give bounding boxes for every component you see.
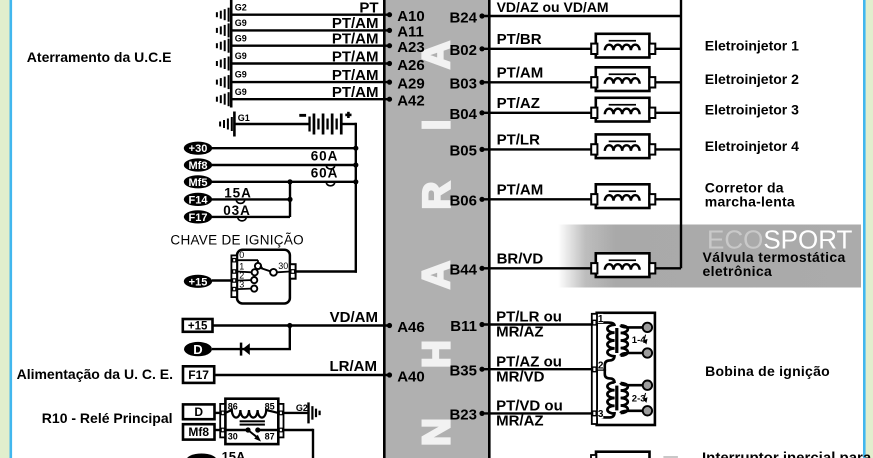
svg-text:G2: G2 <box>296 403 308 413</box>
svg-text:B03: B03 <box>449 76 477 93</box>
svg-text:60A: 60A <box>311 166 338 181</box>
svg-text:Aterramento da U.C.E: Aterramento da U.C.E <box>27 49 172 65</box>
svg-text:B24: B24 <box>449 9 477 26</box>
svg-text:87: 87 <box>265 432 275 442</box>
svg-text:15A: 15A <box>222 449 246 458</box>
svg-text:F17: F17 <box>188 368 209 382</box>
svg-text:15A: 15A <box>224 186 251 201</box>
svg-text:Eletroinjetor 3: Eletroinjetor 3 <box>705 101 799 117</box>
svg-text:+15: +15 <box>189 276 208 288</box>
svg-text:G9: G9 <box>235 70 247 80</box>
svg-text:A40: A40 <box>397 368 425 385</box>
svg-text:Eletroinjetor 4: Eletroinjetor 4 <box>705 138 799 154</box>
svg-text:30: 30 <box>278 261 288 271</box>
svg-text:A42: A42 <box>397 93 425 110</box>
svg-text:G9: G9 <box>235 51 247 61</box>
svg-text:VD/AZ ou VD/AM: VD/AZ ou VD/AM <box>497 0 609 15</box>
svg-text:3: 3 <box>598 409 604 420</box>
svg-text:PT/AM: PT/AM <box>497 64 544 81</box>
svg-text:Alimentação da U. C. E.: Alimentação da U. C. E. <box>17 366 173 382</box>
svg-text:PT/AM: PT/AM <box>332 67 379 84</box>
svg-text:0: 0 <box>239 250 244 260</box>
svg-text:PT/AZ: PT/AZ <box>497 95 540 112</box>
svg-text:B11: B11 <box>450 318 477 335</box>
svg-text:PT/BR: PT/BR <box>497 31 542 48</box>
svg-text:MR/AZ: MR/AZ <box>496 324 543 341</box>
svg-text:B02: B02 <box>449 42 477 59</box>
svg-text:LR/AM: LR/AM <box>330 358 378 375</box>
svg-text:2: 2 <box>598 361 604 372</box>
svg-text:Bobina de ignição: Bobina de ignição <box>705 363 830 379</box>
svg-text:Mf5: Mf5 <box>189 177 208 189</box>
svg-text:G9: G9 <box>235 33 247 43</box>
svg-text:+15: +15 <box>188 321 208 333</box>
svg-text:VD/AM: VD/AM <box>330 309 378 326</box>
svg-text:60A: 60A <box>311 149 338 164</box>
svg-text:eletrônica: eletrônica <box>703 263 773 279</box>
svg-text:B35: B35 <box>449 363 477 380</box>
svg-text:Eletroinjetor 1: Eletroinjetor 1 <box>705 37 799 53</box>
svg-text:Interruptor inercial para: Interruptor inercial para <box>702 450 872 458</box>
svg-text:R10 - Relé Principal: R10 - Relé Principal <box>42 410 173 426</box>
svg-text:PT/AM: PT/AM <box>332 84 379 101</box>
svg-text:MR/AZ: MR/AZ <box>496 413 543 430</box>
svg-text:G9: G9 <box>235 87 247 97</box>
svg-text:A26: A26 <box>397 57 425 74</box>
svg-text:F14: F14 <box>189 194 209 206</box>
svg-text:B23: B23 <box>449 407 477 424</box>
svg-text:CHAVE DE IGNIÇÃO: CHAVE DE IGNIÇÃO <box>170 233 304 248</box>
svg-text:A46: A46 <box>397 319 425 336</box>
svg-text:03A: 03A <box>223 203 250 218</box>
svg-text:G2: G2 <box>235 2 247 12</box>
svg-text:A29: A29 <box>397 75 425 92</box>
svg-text:B05: B05 <box>449 143 477 160</box>
svg-text:G9: G9 <box>235 18 247 28</box>
svg-text:30: 30 <box>228 432 238 442</box>
svg-text:F17: F17 <box>189 212 208 224</box>
svg-text:PT/LR: PT/LR <box>497 131 540 148</box>
svg-text:B44: B44 <box>449 262 477 279</box>
svg-text:Eletroinjetor 2: Eletroinjetor 2 <box>705 71 799 87</box>
svg-text:marcha-lenta: marcha-lenta <box>705 193 795 209</box>
svg-text:PT/AM: PT/AM <box>332 31 379 48</box>
svg-text:1: 1 <box>598 314 604 325</box>
svg-text:PT/AM: PT/AM <box>332 48 379 65</box>
svg-text:Mf8: Mf8 <box>188 425 209 439</box>
svg-text:D: D <box>194 405 203 419</box>
svg-text:B06: B06 <box>449 193 477 210</box>
svg-text:Mf8: Mf8 <box>189 160 208 172</box>
svg-text:D: D <box>193 342 202 357</box>
svg-text:A10: A10 <box>397 8 425 25</box>
svg-text:MR/VD: MR/VD <box>496 368 544 385</box>
svg-text:A23: A23 <box>397 39 425 56</box>
svg-text:+30: +30 <box>189 143 208 155</box>
svg-text:PT: PT <box>359 0 378 17</box>
svg-text:G1: G1 <box>238 113 250 123</box>
svg-text:B04: B04 <box>449 106 477 123</box>
svg-text:BR/VD: BR/VD <box>497 250 544 267</box>
svg-text:PT/AM: PT/AM <box>497 181 544 198</box>
